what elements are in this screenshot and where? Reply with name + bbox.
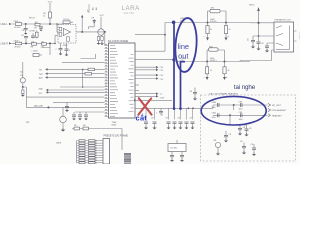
U1 pin labels left column xyxy=(110,46,118,117)
connector CN802 small xyxy=(124,154,131,165)
resistor R844 vertical xyxy=(225,23,227,26)
capacitor C865 stack xyxy=(239,125,241,128)
wire headset row 2 xyxy=(213,114,268,116)
capacitor under U4 right xyxy=(180,156,184,157)
net arrow down R1 xyxy=(206,74,208,77)
svg-text:R8: R8 xyxy=(83,125,85,127)
wire short stub pin xyxy=(62,62,105,64)
wire C820 to bracket xyxy=(23,87,27,97)
resistor R812 below xyxy=(22,87,24,90)
wire op-amp output xyxy=(76,31,106,33)
wire line-out L network xyxy=(174,11,251,23)
resistor R805 between channels xyxy=(36,32,39,37)
resistor R806 input pair xyxy=(59,27,62,31)
svg-text:C8: C8 xyxy=(190,91,192,93)
ground under Q803 xyxy=(216,154,220,156)
capacitor small below rail left xyxy=(160,108,162,111)
resistor R822 xyxy=(85,73,92,76)
node headset row2 xyxy=(229,114,231,116)
wire headphone rail xyxy=(135,107,213,109)
decoupling caps group B xyxy=(169,108,193,119)
svg-text:HEADSET: HEADSET xyxy=(272,114,283,117)
svg-text:TVR: TVR xyxy=(39,74,44,76)
wire U1 left pin stubs xyxy=(105,46,109,117)
grounds group B xyxy=(167,128,171,130)
node J1 xyxy=(25,23,27,25)
wire SW7+ vertical xyxy=(258,11,260,36)
svg-text:1k: 1k xyxy=(43,16,45,18)
node loop junction xyxy=(164,34,166,36)
op-amp U4 box xyxy=(176,140,178,144)
node line-out R j1 xyxy=(206,61,208,63)
svg-text:C8: C8 xyxy=(166,118,168,120)
svg-text:C8: C8 xyxy=(249,128,251,130)
wire U1 pin DAC-R xyxy=(135,69,156,71)
wire annotation trace L (navy) xyxy=(173,23,175,110)
svg-text:C8: C8 xyxy=(151,118,153,120)
svg-text:47u/16: 47u/16 xyxy=(14,47,21,49)
capacitor cluster C811-C813 xyxy=(74,112,86,115)
wire U4 legs xyxy=(172,152,182,156)
svg-text:VCC: VCC xyxy=(100,15,105,17)
annotation ellipse tai nghe xyxy=(201,96,266,125)
svg-text:LARA: LARA xyxy=(122,5,141,12)
wire rail into box xyxy=(212,105,214,108)
ground under C853 xyxy=(265,51,269,53)
svg-text:C8: C8 xyxy=(247,39,249,41)
svg-text:4558: 4558 xyxy=(63,45,69,47)
wire U1 pin HP feed 1 xyxy=(135,93,156,95)
wire bus tie vertical xyxy=(82,69,84,87)
svg-text:PHONE: PHONE xyxy=(298,32,300,40)
annotation ellipse line out xyxy=(174,17,199,72)
ground under C865 xyxy=(238,134,242,136)
ground under C868 xyxy=(252,154,256,156)
grounds under U4 xyxy=(170,160,174,162)
wire stub pin 14 xyxy=(75,111,105,113)
svg-text:7.2k: 7.2k xyxy=(160,79,164,81)
resistor R821 xyxy=(88,68,95,71)
svg-text:L: L xyxy=(204,36,206,37)
svg-text:HP_LEFT: HP_LEFT xyxy=(272,105,282,107)
capacitor C852 xyxy=(258,36,260,42)
svg-text:DA CONV FRAME: DA CONV FRAME xyxy=(108,40,129,43)
svg-text:C8: C8 xyxy=(240,141,242,143)
wire to IC pin 1 xyxy=(104,32,106,46)
wire U1 pin AUX-R xyxy=(135,78,156,80)
wire channel R xyxy=(12,36,56,56)
node annotation dots on rail xyxy=(173,107,176,110)
op-amp U801 triangle xyxy=(63,28,70,35)
node J3 xyxy=(25,42,27,44)
ground under C859 xyxy=(193,99,197,101)
ground under C851 xyxy=(251,47,255,49)
wire jack sleeve return xyxy=(240,50,274,62)
U1 pin labels right column xyxy=(129,55,134,112)
svg-text:1k: 1k xyxy=(228,70,230,72)
svg-text:R8: R8 xyxy=(214,140,216,142)
ground under Q802 xyxy=(61,130,66,132)
svg-text:C8: C8 xyxy=(22,30,24,32)
wire net SCL xyxy=(46,91,48,94)
svg-text:TDA: TDA xyxy=(112,121,117,124)
net arrow down L1 xyxy=(207,34,209,38)
svg-text:tai nghe: tai nghe xyxy=(234,84,256,91)
svg-text:R8: R8 xyxy=(74,125,76,127)
svg-text:100u: 100u xyxy=(212,107,216,109)
wire net TV-R xyxy=(45,72,47,75)
svg-text:line: line xyxy=(178,42,190,51)
U1 pin numbers left xyxy=(105,45,107,116)
wire annotation trace R (navy) xyxy=(181,62,186,110)
op-amp U801 dashed box xyxy=(58,25,76,44)
svg-text:DA(L)-MA: DA(L)-MA xyxy=(34,104,44,107)
wire U1 stub pin 7 xyxy=(135,84,139,86)
svg-text:C8: C8 xyxy=(190,118,192,120)
ground below R809 xyxy=(100,43,104,45)
resistor R845 vertical xyxy=(206,62,208,67)
wire CN801 pin stubs xyxy=(100,141,104,163)
svg-text:L: L xyxy=(204,77,206,78)
svg-text:C8: C8 xyxy=(229,134,231,136)
ground cluster under C811-C813 xyxy=(72,119,76,121)
wire lineout into jack xyxy=(250,22,274,24)
capacitor stack under op-amp 2 xyxy=(66,43,68,49)
svg-text:47u/16: 47u/16 xyxy=(14,27,21,29)
svg-text:402-900: 402-900 xyxy=(124,12,135,15)
transistor Q802 LED driver xyxy=(60,116,67,123)
wire net TV-L xyxy=(45,68,47,71)
phone jack internal contacts xyxy=(276,26,290,50)
ground under C866 xyxy=(244,135,248,137)
svg-text:AUX: AUX xyxy=(39,77,44,80)
capacitor C866 stack xyxy=(246,125,248,129)
capacitor C803 xyxy=(24,37,28,38)
node jack j1 xyxy=(257,22,259,24)
svg-text:LINE L: LINE L xyxy=(1,24,9,26)
ground under C869 xyxy=(224,141,228,143)
decoupling caps group A xyxy=(146,108,155,119)
node annotation dot on R-channel wire xyxy=(172,58,175,61)
ground below R808 xyxy=(97,43,101,45)
wire op-amp in stubs xyxy=(57,32,62,34)
svg-text:1k: 1k xyxy=(229,29,231,31)
resistor R808 stack xyxy=(98,35,100,42)
wire row junction drop xyxy=(230,105,234,125)
capacitor under U4 left xyxy=(170,156,174,157)
svg-text:PHONETTE 3.5V: PHONETTE 3.5V xyxy=(275,19,292,21)
svg-text:C8 R8: C8 R8 xyxy=(29,31,36,33)
svg-text:SCL: SCL xyxy=(39,93,43,95)
svg-text:DA CONV FRAME HEADSET: DA CONV FRAME HEADSET xyxy=(209,93,239,96)
wire jack cap row xyxy=(253,35,274,37)
connector frame headset dashed box xyxy=(201,95,296,161)
wire CN802 feed xyxy=(121,138,123,150)
svg-text:R8 C8: R8 C8 xyxy=(29,18,36,20)
svg-text:C8: C8 xyxy=(261,43,263,45)
svg-text:470/16 +: 470/16 + xyxy=(210,21,218,23)
wire headset row 1 xyxy=(213,104,268,106)
svg-text:100u: 100u xyxy=(239,109,243,111)
svg-text:7.2k: 7.2k xyxy=(160,70,164,72)
svg-text:7.2k: 7.2k xyxy=(160,75,164,77)
node J4 xyxy=(49,42,51,44)
wire U1 pin HP feed 2 xyxy=(135,95,156,97)
wire stub with cap drop xyxy=(53,102,105,106)
svg-text:0.6W: 0.6W xyxy=(160,98,165,100)
wire U1 pin HP-OUT (cut by X) xyxy=(134,99,136,101)
svg-text:out: out xyxy=(178,52,188,61)
wire line-out R network xyxy=(185,50,250,62)
svg-text:C8: C8 xyxy=(251,144,253,146)
capacitor C810 xyxy=(65,107,69,108)
capacitor C869 pair xyxy=(225,131,227,135)
svg-text:+ C805: + C805 xyxy=(31,51,38,53)
ground under C807 xyxy=(24,33,28,35)
node C820 junction xyxy=(22,86,24,88)
svg-text:C861: C861 xyxy=(212,112,217,114)
svg-text:PRESETS D/O FRAME: PRESETS D/O FRAME xyxy=(104,135,129,138)
net arrow HP-RIGHT xyxy=(268,114,271,117)
node out to IC xyxy=(104,31,106,33)
node annotation dot top xyxy=(172,21,176,25)
wire C865 feed xyxy=(230,124,247,126)
ground under R812 xyxy=(21,95,25,97)
wire U1 pin AUX-L xyxy=(135,74,156,76)
wire U1 pin DAC-L xyxy=(135,66,156,68)
svg-text:100u: 100u xyxy=(239,119,243,121)
resistor R846 vertical xyxy=(224,62,226,67)
net arrow HP-LEFT xyxy=(268,103,271,106)
svg-text:LED8: LED8 xyxy=(56,143,62,145)
net arrow ORG-HEADSET xyxy=(268,108,271,111)
node headset row1 xyxy=(233,104,235,106)
svg-text:100u: 100u xyxy=(212,117,216,119)
wire ch1 into op-amp xyxy=(57,22,73,32)
svg-text:8425: 8425 xyxy=(112,125,118,127)
svg-text:C860: C860 xyxy=(212,102,217,104)
svg-text:cắt: cắt xyxy=(136,114,148,123)
node op-amp input junction xyxy=(56,23,58,25)
node op-amp out junction xyxy=(81,31,83,33)
wire jack pin3 xyxy=(267,43,274,46)
transistor Q801 xyxy=(98,29,104,35)
svg-text:U4 MC: U4 MC xyxy=(171,148,178,150)
resistor R831 R832 pair xyxy=(72,129,122,139)
capacitor stack under op-amp 1 xyxy=(60,43,62,48)
svg-text:SW7+: SW7+ xyxy=(249,4,256,6)
ground under C867 xyxy=(242,153,246,155)
wire short stub pin 2 xyxy=(60,86,105,88)
wire RN801 common bus xyxy=(76,141,78,163)
wire top loop to IC pin1 xyxy=(81,54,96,59)
resistor array RN801 xyxy=(77,141,100,163)
svg-text:ORG-HEADSET: ORG-HEADSET xyxy=(272,109,287,112)
svg-text:5.1: 5.1 xyxy=(160,94,163,96)
wire channel L xyxy=(12,18,64,24)
svg-text:LINE R: LINE R xyxy=(1,44,9,46)
wire net AUX xyxy=(45,76,47,79)
node J2 xyxy=(49,23,51,25)
net arrow down L2 xyxy=(225,34,227,38)
net arrow down R2 xyxy=(224,74,226,77)
svg-text:470/16 +: 470/16 + xyxy=(210,60,218,62)
ground under op-amp 2 xyxy=(65,55,69,57)
ground under C852 xyxy=(256,49,260,51)
capacitor C807 shunt xyxy=(25,24,27,28)
ground under op-amp 1 xyxy=(59,54,63,56)
power VCC riser xyxy=(81,15,83,18)
svg-text:1k: 1k xyxy=(210,29,212,31)
svg-text:C8: C8 xyxy=(178,118,180,120)
wire R-channel lineout from U1 xyxy=(135,60,185,62)
node line-out L j1 xyxy=(207,22,209,24)
capacitor C859 stack left of box xyxy=(194,88,196,93)
wire net SDA xyxy=(46,89,48,92)
capacitor C853 xyxy=(265,46,269,47)
annotation red X cut mark xyxy=(138,98,151,115)
wire U1 stub pin 8 xyxy=(135,90,139,92)
resistor R843 vertical xyxy=(207,23,209,26)
wire jack right stubs xyxy=(294,31,297,41)
svg-text:D8: D8 xyxy=(92,17,94,19)
resistor R809 xyxy=(101,35,103,43)
svg-text:7.2k: 7.2k xyxy=(160,67,164,69)
svg-text:1k: 1k xyxy=(210,70,212,72)
resistor R807 bottom xyxy=(66,37,69,41)
wire L-channel loop to line out xyxy=(135,23,174,52)
grounds group A xyxy=(144,128,148,130)
wire ch2 into op-amp xyxy=(55,35,58,37)
node rail junctions right xyxy=(188,107,190,109)
wire net MUTE bracket xyxy=(26,97,104,107)
